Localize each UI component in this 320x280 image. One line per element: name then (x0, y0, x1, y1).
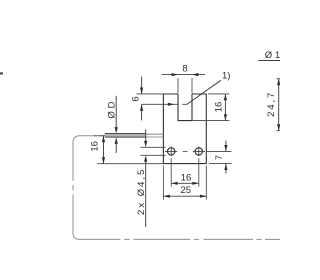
dim 25 text (180, 185, 191, 196)
hole right (193, 147, 205, 157)
svg-text:Ø D: Ø D (106, 101, 117, 118)
svg-text:Ø 10: Ø 10 (265, 50, 280, 61)
dim 7 line and arrows (224, 141, 227, 174)
dim 8 text (182, 64, 187, 75)
cable phantom route (73, 136, 280, 240)
dim 16 slot line and arrows (224, 94, 227, 121)
dim 16 slot text (214, 102, 225, 113)
svg-text:7: 7 (214, 155, 225, 160)
slot (178, 94, 192, 121)
dim diameter D text (106, 101, 117, 118)
dim 2x 4.5 line and arrows (144, 130, 147, 227)
dim 16 holes line and arrows (171, 182, 199, 185)
dim 16 left line and arrows (102, 136, 105, 164)
beam axis arrow (142, 103, 178, 106)
note 1 text (222, 71, 230, 82)
dim 16 slot depth extensions (192, 94, 229, 121)
dim 2x 4.5 tangent extensions (140, 147, 165, 155)
dim 25 extensions (163, 166, 206, 200)
body outline (163, 94, 206, 164)
dim 6 extension (137, 93, 164, 95)
note 1 leader (182, 80, 221, 104)
holes centerline dash (183, 150, 188, 152)
dim 16 left extensions (94, 136, 163, 164)
svg-text:25: 25 (180, 185, 191, 196)
dim 24.7 stubs (277, 79, 281, 131)
svg-text:24,7: 24,7 (266, 91, 277, 117)
dim 8 line and arrows (162, 74, 206, 76)
dim 2x 4.5 text (136, 168, 147, 215)
dim 6 line and arrows (140, 77, 143, 121)
side view label underline (258, 60, 280, 62)
svg-text:6: 6 (131, 96, 142, 101)
dim 7 extensions (207, 151, 231, 163)
dim 24.7 text (266, 91, 277, 117)
dim 24.7 line and arrows (277, 79, 280, 131)
svg-text:16: 16 (89, 141, 100, 152)
dim 6 text (131, 96, 142, 101)
dim diameter D line and arrows (115, 96, 118, 153)
hole left (165, 147, 177, 157)
dim 16 holes text (181, 173, 192, 184)
dim 16 holes extensions (171, 158, 199, 186)
dim 7 text (214, 155, 225, 160)
dim 8 extension lines (178, 78, 192, 93)
svg-text:8: 8 (182, 64, 187, 75)
svg-text:16: 16 (181, 173, 192, 184)
svg-text:2x Ø4,5: 2x Ø4,5 (136, 168, 147, 215)
cable thin part to body (146, 134, 164, 137)
svg-text:1): 1) (222, 71, 230, 82)
left edge tick (0, 72, 3, 74)
side view diameter label (265, 50, 286, 61)
cable sheath (diameter D section) (105, 134, 146, 138)
dim 16 left text (89, 141, 100, 152)
dim 25 line and arrows (163, 195, 206, 198)
svg-text:16: 16 (214, 102, 225, 113)
